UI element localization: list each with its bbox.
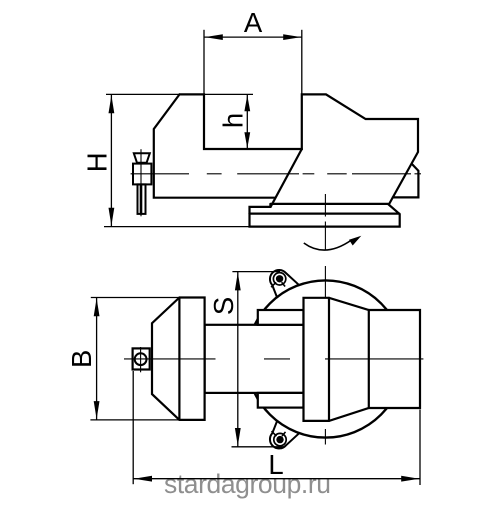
lock bolt circle bottom [274,433,286,445]
fixed jaw front edge diagonal [271,149,302,206]
dimension line A [204,36,302,38]
extension line B top [91,297,180,299]
clamp screw shaft core [140,185,143,214]
extension line ground [104,226,250,228]
screw knob circle plan view [135,353,147,365]
lock bolt handle ticks top [271,282,276,287]
svg-text:B: B [66,350,97,368]
movable jaw trapezoid plan view [152,298,205,420]
screw boss step right side [393,165,419,198]
rear block inner edges [328,298,330,421]
extension line B bottom [90,419,179,421]
svg-text:H: H [82,152,113,172]
dimension line S [237,272,239,447]
extension line A right [301,30,303,95]
centerline swivel axis vertical [324,194,326,217]
svg-text:A: A [244,7,263,38]
swivel lock ear bottom [270,420,299,448]
svg-text:S: S [208,297,239,315]
screw knob block plan view [133,348,150,369]
svg-text:stardagroup.ru: stardagroup.ru [164,469,331,499]
guide step bottom plan view [258,393,304,408]
swivel lock ear top [270,270,299,298]
extension line S top [232,271,280,273]
extension line L left [132,371,134,484]
svg-text:L: L [268,449,283,480]
swivel base circle plan view [247,280,404,437]
lock bolt handle ticks bottom [272,431,277,436]
jaw plate inner edge [178,298,180,420]
lock bolt circle top [273,273,285,285]
clamp screw block side view [133,164,151,185]
extension line S bottom [232,446,284,448]
dimension line h [246,94,248,149]
svg-text:h: h [218,113,249,128]
extension line top (H and h) [106,93,253,95]
clamp screw knob side view [134,153,150,163]
clamp screw axis centerline [140,149,142,216]
centerline side view horizontal [131,173,189,175]
centerline plan view horizontal [124,358,216,360]
vise body outline side view [180,94,419,203]
guide step top plan view [258,310,304,325]
swivel base side view [250,204,400,227]
dimension line L [133,478,420,480]
slide body band plan view [205,325,304,393]
clamp screw shaft side view [138,184,146,214]
dimension line H [110,94,112,226]
rear body block plan view [304,298,421,421]
screw knob axis tick vertical [140,347,142,372]
rotation arrow arc [304,240,352,250]
extension line A left [203,30,205,95]
dimension line B [96,298,98,420]
extension line L right [419,410,421,486]
